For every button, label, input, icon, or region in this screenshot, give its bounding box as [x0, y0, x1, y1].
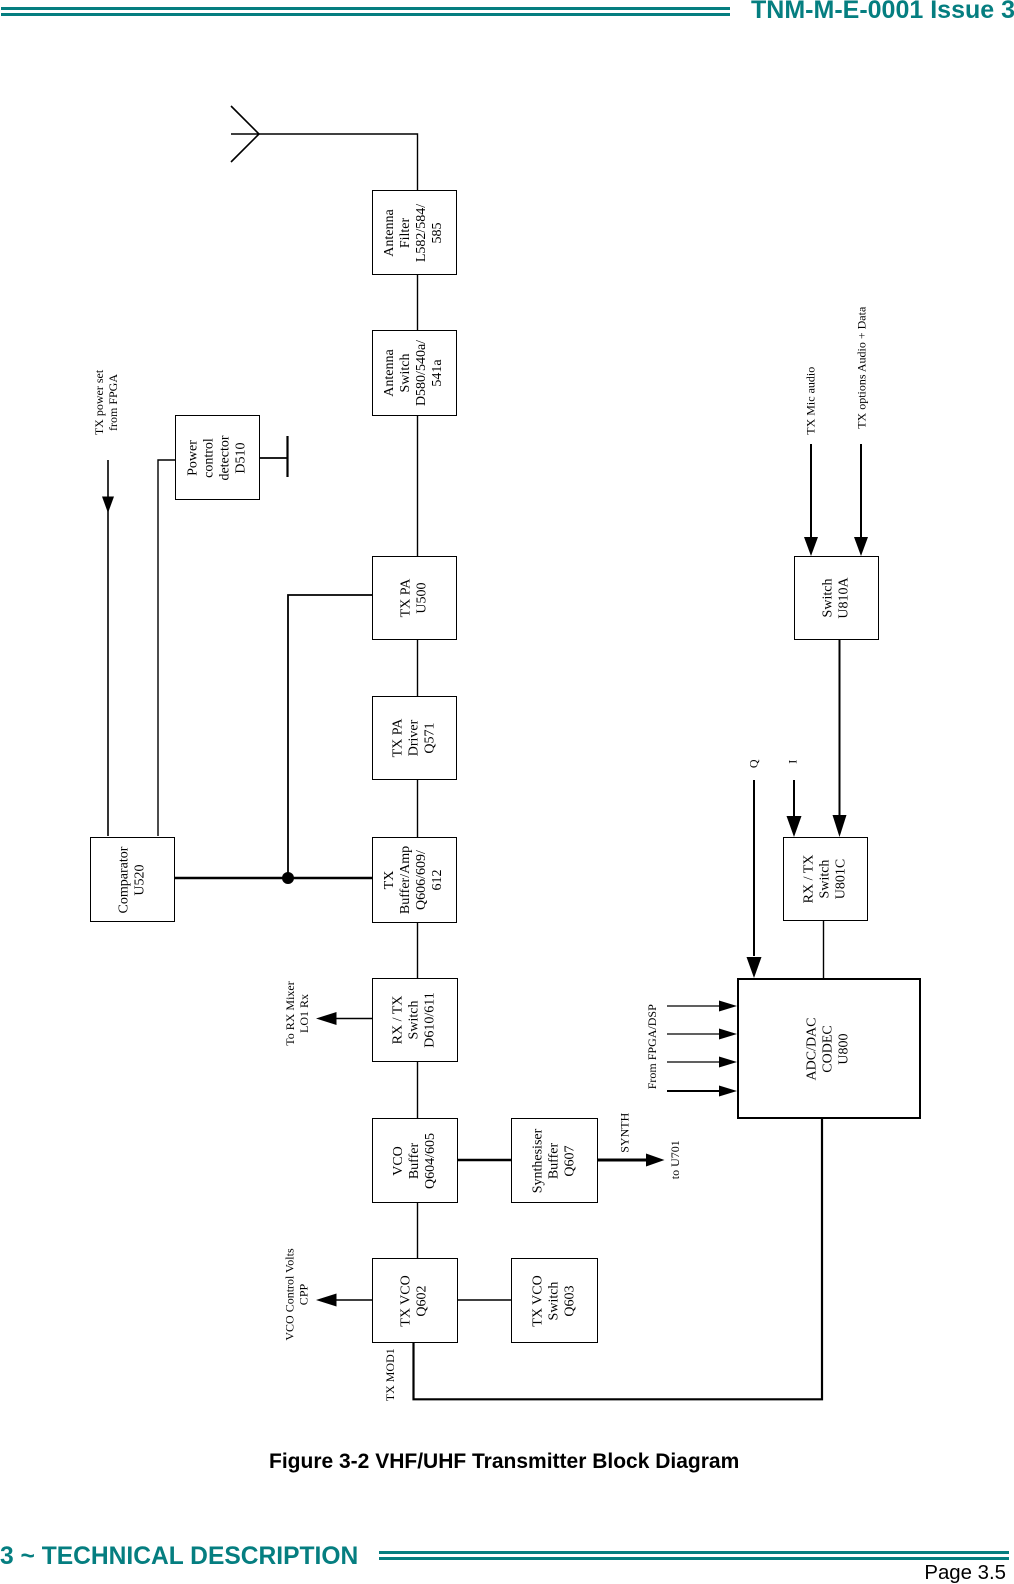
header rule top [1, 7, 730, 10]
block antenna filter L582/584/585 [372, 190, 457, 275]
label to U701 [674, 1159, 676, 1161]
wire U801C to ADC/DAC [823, 921, 825, 978]
header title TNM-M-E-0001 Issue 3 [751, 0, 1014, 22]
TX power set arrow [107, 460, 109, 836]
block VCO buffer Q604/605 [372, 1118, 458, 1203]
feedback wire TX PA to junction [288, 595, 372, 878]
FPGA/DSP arrow 1 [667, 1005, 720, 1007]
wire VCO buffer to TX VCO [417, 1203, 419, 1258]
footer rule top [379, 1551, 1009, 1554]
SYNTH arrow to U701 [598, 1159, 647, 1162]
label Q [753, 763, 755, 765]
footer page number [924, 1563, 1006, 1583]
wire filter to antenna switch [417, 275, 419, 330]
wire comparator to TX buffer [175, 877, 372, 879]
block RX/TX switch U801C [783, 837, 868, 921]
block ADC/DAC CODEC U800 [737, 978, 921, 1119]
block synthesiser buffer Q607 [511, 1118, 598, 1203]
wire RX/TX switch D610 to VCO buffer [417, 1062, 419, 1118]
block TX VCO Q602 [372, 1258, 458, 1343]
detector probe stub [260, 457, 287, 459]
block TX PA U500 [372, 556, 457, 640]
TX mic audio arrow [810, 444, 812, 538]
I arrow [793, 780, 795, 816]
block comparator U520 [90, 837, 175, 922]
label to RX mixer LO1 Rx [296, 1012, 298, 1014]
figure caption [269, 1450, 739, 1474]
antenna symbol [231, 106, 259, 162]
TX MOD1 wire [414, 1119, 823, 1399]
footer section title [0, 1545, 358, 1569]
wire TX VCO to TX VCO switch [458, 1299, 511, 1301]
label TX mic audio [810, 400, 812, 402]
wire TX PA driver to TX buffer [417, 780, 419, 837]
junction dot [282, 872, 294, 884]
VCO control volts arrow [336, 1299, 372, 1301]
block TX VCO switch Q603 [511, 1258, 598, 1343]
TX options arrow [860, 444, 862, 538]
FPGA/DSP arrow 4 [667, 1090, 720, 1092]
label I [792, 761, 794, 763]
label SYNTH [624, 1132, 626, 1134]
FPGA/DSP arrow 3 [667, 1061, 720, 1063]
footer rule bottom [379, 1557, 1009, 1560]
block TX buffer/amp Q606/609/612 [372, 837, 457, 923]
wire antenna switch to TX PA [417, 416, 419, 556]
block RX/TX switch D610/611 [372, 978, 458, 1062]
wire antenna to filter [259, 134, 418, 190]
block power control detector D510 [175, 415, 260, 500]
block switch U810A [794, 556, 879, 640]
detector probe bar [286, 436, 288, 477]
Q arrow [753, 780, 755, 956]
header rule bottom [1, 13, 730, 16]
wire U810A to U801C [839, 640, 841, 816]
arrow to RX mixer [336, 1018, 372, 1020]
FPGA/DSP arrow 2 [667, 1033, 720, 1035]
label from FPGA/DSP [652, 1046, 654, 1048]
label TX MOD1 [389, 1374, 391, 1376]
wire detector D510 to comparator [158, 460, 175, 836]
label VCO control volts CPP [296, 1293, 298, 1295]
label TX power set from FPGA [106, 401, 108, 403]
wire TX buffer to RX/TX switch D610 [417, 923, 419, 978]
wire TX PA to TX PA driver [417, 640, 419, 696]
block TX PA driver Q571 [372, 696, 457, 780]
block antenna switch D580/540a/541a [372, 330, 457, 416]
label TX options audio + data [861, 367, 863, 369]
wire VCO buffer to synthesiser buffer [458, 1159, 511, 1162]
